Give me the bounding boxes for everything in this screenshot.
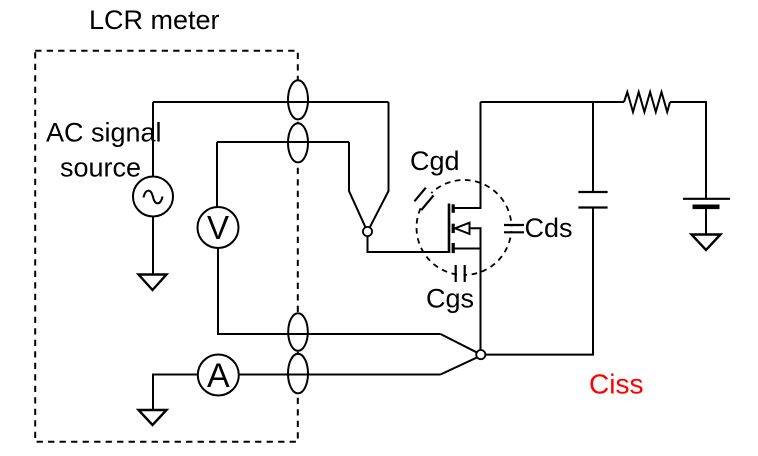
- dashed circle around MOSFET: [417, 180, 512, 275]
- wire: A meter right through ellipse 4: [239, 374, 441, 376]
- svg-text:A: A: [207, 357, 230, 395]
- terminal ellipse top 1: [288, 80, 308, 119]
- white gap of Cgs capacitor: [457, 264, 464, 284]
- wire: AC source top vertical: [152, 102, 154, 177]
- ground under A wire: [139, 410, 167, 425]
- capacitor Cds plates: [504, 225, 524, 232]
- svg-text:LCR meter: LCR meter: [89, 5, 220, 35]
- white gap of Cds capacitor: [503, 226, 525, 231]
- wire: source node to capacitor branch: [485, 209, 593, 355]
- ground under AC source: [139, 275, 167, 291]
- capacitor C1 top lead: [592, 102, 594, 191]
- voltmeter V circle: [198, 207, 239, 248]
- wire across ellipse 3: [288, 333, 308, 335]
- svg-text:AC signal: AC signal: [46, 118, 162, 148]
- wire across ellipse 4: [288, 374, 308, 376]
- node circle gate side: [363, 227, 372, 236]
- MOSFET Q1 gate bar: [448, 204, 451, 254]
- wire across ellipse 2: [288, 141, 308, 143]
- svg-text:Ciss: Ciss: [589, 369, 643, 400]
- wire across ellipse 1: [288, 101, 308, 103]
- source node circle: [476, 350, 485, 359]
- wire: V meter down and right to ellipse 3: [218, 248, 441, 334]
- terminal ellipse top 2: [288, 123, 308, 162]
- MOSFET Q1 source stub and lead down: [455, 249, 481, 351]
- battery B1 short thick plate: [693, 205, 720, 210]
- MOSFET Q1 channel tick top: [452, 204, 455, 213]
- svg-text:Cds: Cds: [525, 213, 573, 243]
- MOSFET Q1 body arrow: [455, 223, 470, 234]
- wire: node to MOSFET gate: [368, 235, 450, 252]
- battery B1 long plate: [683, 198, 730, 200]
- ammeter A circle: [198, 355, 239, 396]
- MOSFET Q1 channel tick bottom: [452, 243, 455, 253]
- LCR meter dashed enclosure box: [35, 51, 298, 442]
- wire: elbow down from top rail: [369, 102, 388, 228]
- MOSFET Q1 channel tick middle: [452, 224, 455, 233]
- wire: top rail from AC source to elbow: [153, 101, 389, 103]
- wire: elbow down to node: [349, 142, 366, 228]
- MOSFET Q1 drain stub and lead up: [455, 102, 481, 208]
- svg-text:V: V: [207, 209, 229, 246]
- wire: diagonal into source node: [441, 334, 478, 353]
- wire: top rail right section: [481, 101, 625, 103]
- svg-text:source: source: [60, 153, 141, 183]
- wire: AC source to ground: [152, 217, 154, 275]
- capacitor Cgd tilted plates: [414, 188, 433, 211]
- white gap of Cgd capacitor: [415, 189, 433, 208]
- wire: A meter left to ground stem: [153, 375, 198, 410]
- wire: diagonal up into source node: [441, 357, 478, 374]
- resistor R1: [624, 92, 670, 112]
- sine symbol inside AC source: [144, 191, 163, 204]
- capacitor Cgs plates: [456, 265, 465, 282]
- svg-text:Cgs: Cgs: [426, 284, 474, 314]
- svg-text:Cgd: Cgd: [410, 146, 460, 176]
- AC signal source circle: [133, 177, 173, 217]
- wire: V-meter top vertical: [216, 142, 218, 208]
- terminal ellipse bottom 3: [288, 313, 308, 351]
- terminal ellipse bottom 4: [288, 354, 308, 394]
- wire: battery to ground: [705, 209, 707, 234]
- ground under battery: [692, 235, 721, 251]
- wire: second rail from V meter to elbow: [217, 141, 349, 143]
- MOSFET Q1 body stub: [470, 228, 481, 248]
- wire: resistor to battery corner: [670, 102, 706, 198]
- capacitor C1 plates: [578, 192, 607, 208]
